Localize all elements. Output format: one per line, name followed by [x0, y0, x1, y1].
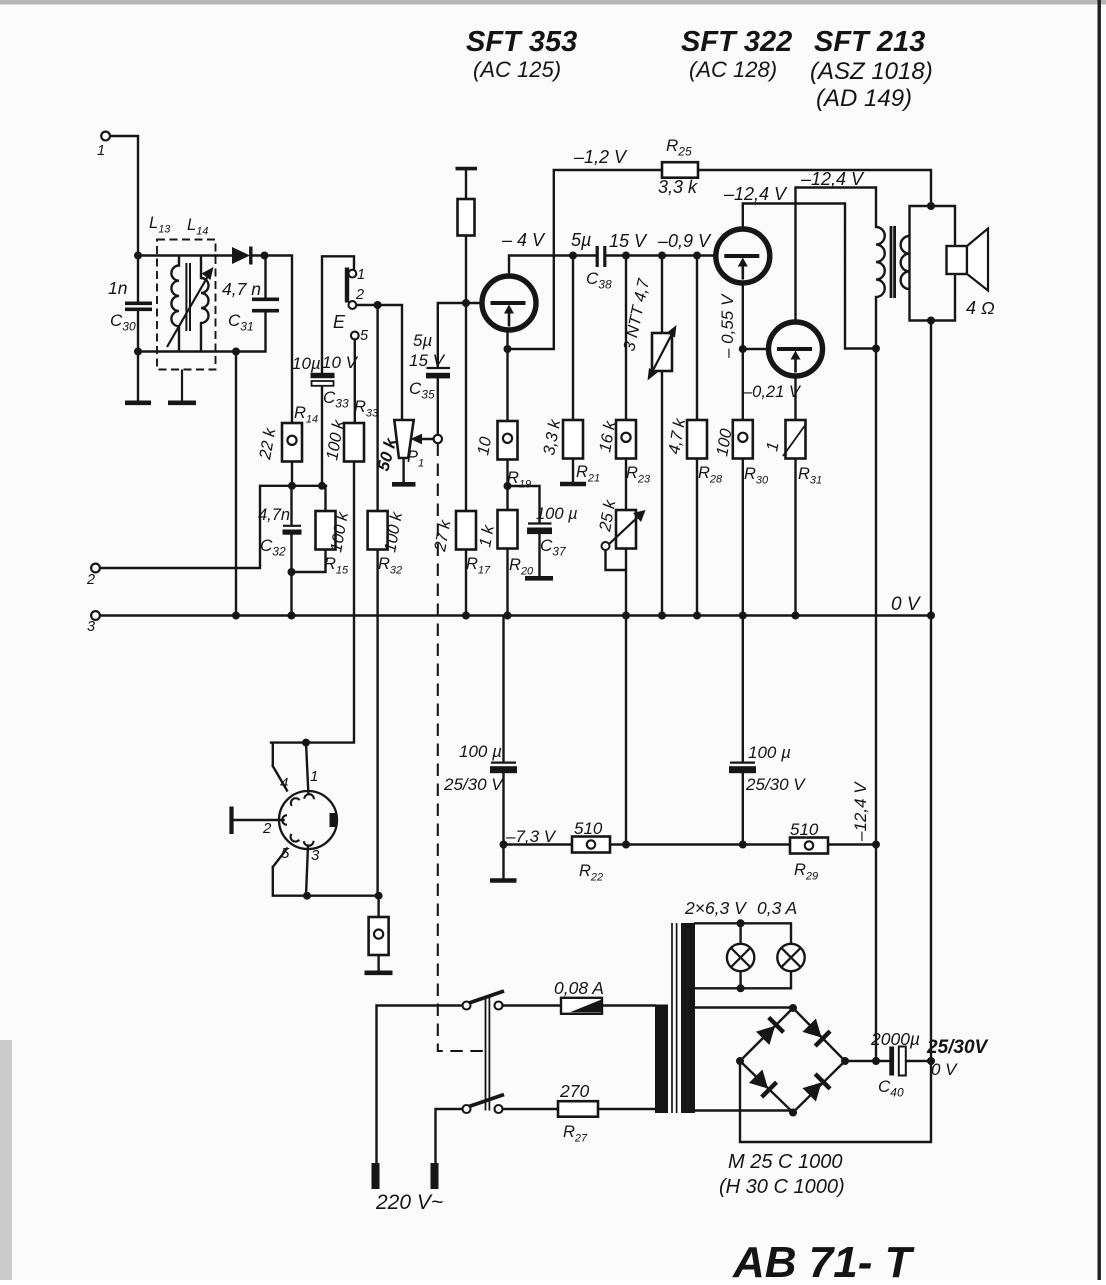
svg-text:3,3 k: 3,3 k [658, 177, 698, 197]
svg-text:SFT 322: SFT 322 [681, 26, 792, 58]
svg-text:4,7n: 4,7n [258, 506, 290, 524]
svg-text:0 V: 0 V [931, 1060, 958, 1079]
svg-text:–0,21 V: –0,21 V [742, 383, 802, 401]
svg-text:270: 270 [559, 1081, 589, 1101]
svg-text:1n: 1n [108, 278, 127, 298]
svg-text:(AC 125): (AC 125) [473, 57, 561, 82]
svg-text:220 V~: 220 V~ [375, 1191, 443, 1214]
svg-text:510: 510 [790, 820, 819, 839]
svg-text:2: 2 [355, 287, 364, 303]
svg-text:0,08 A: 0,08 A [554, 978, 604, 998]
svg-text:–12,4 V: –12,4 V [723, 184, 788, 204]
svg-text:25/30 V: 25/30 V [443, 775, 504, 794]
svg-text:SFT 353: SFT 353 [466, 26, 577, 58]
svg-text:10µ: 10µ [292, 354, 321, 373]
svg-text:100 µ: 100 µ [536, 505, 578, 523]
svg-text:AB 71- T: AB 71- T [732, 1238, 915, 1280]
svg-text:15 V: 15 V [409, 351, 446, 370]
svg-text:5µ: 5µ [413, 331, 432, 350]
svg-text:4,7 n: 4,7 n [222, 279, 261, 299]
svg-text:(AD 149): (AD 149) [816, 85, 912, 112]
svg-text:E: E [333, 312, 346, 332]
svg-text:2×6,3 V: 2×6,3 V [684, 898, 748, 918]
svg-text:100 µ: 100 µ [748, 743, 791, 762]
svg-text:100 µ: 100 µ [459, 742, 502, 761]
svg-text:4 Ω: 4 Ω [966, 298, 995, 318]
svg-text:25/30V: 25/30V [926, 1037, 989, 1058]
svg-text:5µ: 5µ [571, 230, 591, 250]
svg-text:– 4 V: – 4 V [501, 230, 546, 250]
svg-text:–1,2 V: –1,2 V [573, 147, 628, 167]
svg-text:1: 1 [310, 768, 318, 785]
svg-text:3: 3 [87, 619, 95, 635]
svg-text:– 0,55 V: – 0,55 V [718, 293, 737, 359]
svg-text:5: 5 [281, 845, 290, 862]
svg-text:0 V: 0 V [891, 594, 922, 615]
svg-text:2: 2 [86, 572, 95, 588]
svg-text:(AC 128): (AC 128) [689, 57, 777, 82]
svg-text:(H 30 C 1000): (H 30 C 1000) [719, 1176, 845, 1198]
svg-text:1: 1 [97, 143, 105, 159]
svg-text:15 V: 15 V [609, 231, 648, 251]
svg-text:–7,3 V: –7,3 V [505, 827, 557, 846]
svg-text:M 25 C 1000: M 25 C 1000 [728, 1151, 843, 1173]
svg-text:2: 2 [262, 820, 272, 837]
svg-text:1: 1 [357, 267, 365, 283]
svg-text:10 V: 10 V [322, 353, 359, 372]
svg-text:2000µ: 2000µ [870, 1029, 920, 1049]
svg-text:510: 510 [574, 819, 603, 838]
svg-text:3: 3 [311, 847, 320, 864]
svg-text:–12,4 V: –12,4 V [851, 781, 870, 842]
svg-text:4: 4 [280, 775, 288, 792]
svg-text:SFT 213: SFT 213 [814, 26, 925, 58]
svg-text:(ASZ 1018): (ASZ 1018) [810, 58, 933, 85]
svg-text:–0,9 V: –0,9 V [657, 231, 712, 251]
svg-text:25/30 V: 25/30 V [745, 775, 806, 794]
svg-text:5: 5 [360, 328, 369, 344]
svg-text:–12,4 V: –12,4 V [800, 169, 865, 189]
svg-text:0,3 A: 0,3 A [757, 898, 797, 918]
